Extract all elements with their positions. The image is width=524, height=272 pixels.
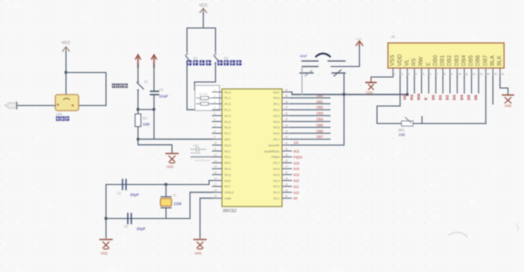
svg-text:P2.6: P2.6 [273,167,280,171]
svg-text:D5: D5 [466,94,471,100]
svg-text:S1: S1 [144,80,148,84]
serial header marks [191,144,213,161]
svg-text:VCC: VCC [273,90,280,94]
wire DB7 long drop to backlight rail [485,77,487,124]
svg-text:RW: RW [416,93,421,100]
net labels DB0-DB7 [317,94,324,139]
resistor R3 [197,103,213,105]
svg-text:D1: D1 [437,94,442,100]
IC pin stubs right [282,92,292,198]
svg-text:VDD: VDD [397,54,403,66]
svg-text:E: E [423,97,428,100]
wire left vertical of crystal loop [105,185,107,239]
wire cap to junction [153,95,155,110]
svg-text:DB4: DB4 [462,55,468,66]
svg-text:DB3: DB3 [454,55,460,66]
node junction crystal bottom-left [105,217,108,220]
svg-text:P0.0: P0.0 [273,96,280,100]
resistor network box [195,86,220,111]
svg-text:DB3: DB3 [317,112,324,116]
svg-text:RS: RS [412,58,418,66]
wire crystal bottom rail [106,218,190,220]
wire split rail [187,27,216,29]
svg-text:P0.2: P0.2 [273,108,280,112]
wire right key to resistor box [195,63,216,90]
IC pin names left [225,90,234,200]
svg-text:A12: A12 [294,179,300,183]
wire RST to IC [138,110,213,140]
ground (reset) [166,154,178,170]
switch S3 [214,53,228,64]
stray smudge right edge [516,224,518,230]
svg-text:P3.4: P3.4 [225,167,232,171]
svg-text:P0.4: P0.4 [273,120,280,124]
svg-text:P2.1: P2.1 [273,197,280,201]
wire IC GND pin down [200,198,213,238]
svg-text:ALE: ALE [294,150,300,154]
svg-text:10K: 10K [143,122,150,127]
svg-text:P0.5: P0.5 [273,126,280,130]
svg-text:C3: C3 [159,88,163,92]
potentiometer RP1 [399,118,414,137]
svg-text:Y1: Y1 [173,194,177,198]
IC pin names right [264,90,280,200]
capacitor C2 [124,214,146,231]
power VCC arrow (reset left) [136,55,141,67]
svg-text:RW: RW [419,56,425,66]
wire resistor to RST node [137,127,139,140]
wire VSS pin to ground [371,76,393,78]
svg-text:RS: RS [409,94,414,100]
power VCC symbol (keys) [199,3,208,14]
node junction left [137,108,140,111]
wire pot right rail [414,117,486,124]
svg-text:P0.7: P0.7 [273,138,280,142]
svg-text:VSS: VSS [390,55,396,66]
svg-text:10K: 10K [399,133,406,137]
svg-text:D4: D4 [459,94,464,100]
svg-text:P1.5: P1.5 [225,120,232,124]
node junction at (66,72.5) [65,71,68,74]
svg-text:GND: GND [101,252,109,256]
svg-text:P0.3: P0.3 [273,114,280,118]
svg-text:10uF: 10uF [300,54,307,58]
wire VCC drop and left spur [331,45,359,67]
resistor R2 [197,97,213,99]
svg-text:GND: GND [225,197,233,201]
svg-text:P2.3: P2.3 [273,185,280,189]
port P? (left sheet entry) [5,102,17,109]
potentiometer RP1 wiring [377,106,401,124]
node junction crystal top [165,183,168,186]
svg-text:R1: R1 [143,117,147,121]
svg-text:12M: 12M [174,201,182,206]
switch S1 [137,80,148,91]
svg-text:VCC: VCC [199,3,208,8]
label buzzer name (CJK smudge) [56,116,69,120]
wire junction to buzzer top [65,73,67,95]
svg-text:VCC: VCC [62,40,71,45]
svg-text:D6: D6 [473,94,478,100]
wire BLK to ground [500,77,508,95]
capacitor C3 [151,88,169,99]
svg-text:10uF: 10uF [159,94,169,99]
svg-text:P1.2: P1.2 [225,102,232,106]
svg-text:30pF: 30pF [130,192,140,197]
stray smudge bottom right [449,232,467,237]
svg-text:P1.4: P1.4 [225,114,232,118]
svg-text:EA/VPP: EA/VPP [269,143,280,147]
svg-text:C2: C2 [124,225,128,229]
wire right drop to cap [153,64,155,91]
wire RST node to ground [138,139,172,153]
wire BLA drop [492,77,494,104]
node junction RST [137,138,140,141]
node junction EA rail [343,93,346,96]
capacitor C1 [117,180,140,198]
IC pin numbers left [214,89,217,198]
svg-text:PSEN: PSEN [294,155,303,159]
svg-text:R2 10K: R2 10K [199,92,208,96]
label key S3 (CJK smudge) [218,60,242,65]
net labels right stubs [294,150,303,201]
svg-text:LS1: LS1 [56,112,62,116]
wire caps to rail vertical [343,73,345,95]
wire crystal top [106,181,213,185]
ground (crystal left) [100,240,112,256]
svg-text:D2: D2 [445,94,450,100]
svg-text:P3.1: P3.1 [225,149,232,153]
svg-text:P1.1: P1.1 [225,96,232,100]
IC pin numbers right [285,89,288,198]
svg-text:DB5: DB5 [469,55,475,66]
svg-text:P3.5: P3.5 [225,173,232,177]
svg-text:DB6: DB6 [317,129,324,133]
wire left key to P3 pin [187,63,213,110]
switch S2 [186,53,198,64]
svg-text:P2.5: P2.5 [273,173,280,177]
svg-text:ALE/PROG: ALE/PROG [264,149,280,153]
net labels under LCD [402,93,478,100]
capacitor cluster C4 C5 [300,54,345,95]
svg-text:E: E [426,62,432,66]
power VCC arrow (reset right) [152,55,157,67]
svg-text:R3 10K: R3 10K [199,98,208,102]
wire left drop [137,64,139,81]
wire buzzer left pin to port [17,105,55,107]
svg-text:A11: A11 [294,185,300,189]
ground (LCD VSS) [366,77,376,95]
wire VL pin to rail [406,77,408,95]
wire VCC pin jog [291,92,294,95]
svg-text:A9: A9 [294,197,298,201]
svg-text:RST: RST [225,138,231,142]
wires data pins short [414,77,478,93]
svg-text:P1.0: P1.0 [225,90,232,94]
wire P0 bus lines [292,98,331,139]
svg-text:BLA: BLA [490,55,496,66]
svg-text:DB4: DB4 [317,118,324,122]
svg-text:DB1: DB1 [317,100,324,104]
svg-text:BLK: BLK [497,55,503,66]
wire crystal bottom [165,208,167,219]
connector pin numbers [394,72,505,76]
IC pin stubs left [213,92,223,198]
wire loop right side [66,73,106,106]
svg-text:GND: GND [505,104,513,108]
svg-text:DB5: DB5 [317,123,324,127]
svg-text:DB7: DB7 [317,135,324,139]
power VCC arrow (top right) [356,37,363,46]
svg-text:89C52: 89C52 [223,208,237,213]
svg-text:A10: A10 [294,191,300,195]
svg-text:VCC: VCC [356,37,363,41]
svg-text:P3.0: P3.0 [225,143,232,147]
svg-text:D3: D3 [452,94,457,100]
buzzer LS1 body [55,95,78,111]
svg-text:DB6: DB6 [476,55,482,66]
svg-text:P2.4: P2.4 [273,179,280,183]
connector J1 body [388,43,504,68]
svg-text:P3.7: P3.7 [225,185,232,189]
ground (IC) [194,240,206,256]
wire left key drop [186,28,188,52]
label key S2 (CJK smudge) [187,60,212,65]
wire junction to resistor [137,110,139,115]
wire to crystal [165,185,167,197]
svg-text:P0.1: P0.1 [273,102,280,106]
svg-text:P3.2: P3.2 [225,155,232,159]
wire right key drop [215,28,217,52]
crystal Y1 [161,194,182,208]
resistor R1 [135,114,150,127]
ground (LCD BLK) [503,95,514,108]
svg-text:C10: C10 [193,144,199,148]
svg-text:P1.6: P1.6 [225,126,232,130]
wire VCC rail [292,94,407,96]
svg-text:DB0: DB0 [433,55,439,66]
connector pin stubs [393,68,500,77]
svg-text:S3: S3 [224,57,228,61]
svg-text:A13: A13 [294,173,300,177]
wire VCC to junction [65,51,67,73]
wire VDD pin to pot [399,77,401,106]
svg-text:P1.7: P1.7 [225,132,232,136]
svg-text:A14: A14 [294,167,300,171]
svg-text:30pF: 30pF [137,226,147,231]
node junction right [153,108,156,111]
wire junction bar [138,109,154,111]
svg-text:A15: A15 [294,161,300,165]
wire switch to junction [137,90,139,110]
svg-text:P2.7: P2.7 [273,161,280,165]
svg-text:GND: GND [167,165,175,169]
wire XTAL2 riser [190,192,213,218]
svg-text:P2.2: P2.2 [273,191,280,195]
svg-text:DB2: DB2 [447,55,453,66]
svg-text:P3.6: P3.6 [225,179,232,183]
svg-text:P1.3: P1.3 [225,108,232,112]
svg-text:DB2: DB2 [317,106,324,110]
svg-text:GND: GND [195,252,203,256]
svg-text:DB7: DB7 [483,55,489,66]
op IC body U1 [222,89,282,207]
connector pin name texts [390,54,503,66]
wire VCC stem down [202,13,204,29]
svg-text:P3.3: P3.3 [225,161,232,165]
svg-text:D0: D0 [430,94,435,100]
svg-text:XTAL2: XTAL2 [225,191,234,195]
wire EA to VCC rail [292,95,345,146]
svg-text:DB1: DB1 [440,55,446,66]
svg-text:P0.6: P0.6 [273,132,280,136]
label reset circuit (CJK smudge) [112,84,128,88]
power VCC symbol (left module) [62,40,71,52]
node junction rail VL [406,93,409,96]
svg-text:PSEN: PSEN [271,155,279,159]
svg-text:C1: C1 [117,192,121,196]
svg-text:VL: VL [405,59,411,66]
svg-text:S2: S2 [194,57,198,61]
svg-text:GND: GND [366,91,374,95]
